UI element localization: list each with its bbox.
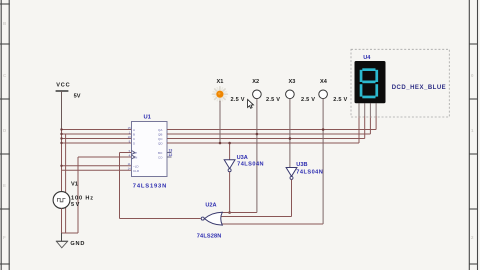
wire gate input2 horizontal — [222, 216, 292, 218]
inverter U3A 74LS04N — [224, 142, 263, 172]
wire U2A output riser — [119, 153, 121, 219]
junction X3-QC — [289, 137, 292, 140]
svg-text:B: B — [133, 133, 135, 137]
svg-text:CLR: CLR — [133, 169, 140, 173]
inverter U3B 74LS04N — [286, 162, 323, 179]
probe X3 — [286, 79, 316, 103]
counter U1 74LS193N — [132, 114, 168, 189]
U1 pin texts — [133, 128, 163, 173]
svg-text:74LS193N: 74LS193N — [133, 184, 167, 190]
wire gate input1 horizontal — [221, 212, 257, 214]
svg-text:2.5 V: 2.5 V — [301, 97, 315, 103]
svg-text:X1: X1 — [217, 79, 224, 85]
probe X1 (lit) — [213, 79, 245, 103]
probe X2 — [252, 79, 280, 103]
svg-text:U2A: U2A — [205, 202, 216, 208]
svg-text:74LS28N: 74LS28N — [197, 233, 222, 239]
wire rail C vertical (DOWN pin to gnd) — [77, 157, 79, 233]
wire DOWN horizontal — [78, 156, 132, 158]
wire data C — [62, 138, 132, 140]
sheet border left — [0, 0, 10, 270]
ground — [56, 233, 84, 248]
svg-text:74LS04N: 74LS04N — [296, 170, 323, 176]
wire CLR — [62, 169, 132, 171]
sheet zone numbers right — [471, 73, 474, 240]
svg-text:F: F — [3, 235, 6, 240]
sheet border right — [469, 0, 478, 270]
svg-text:2.5 V: 2.5 V — [266, 97, 280, 103]
svg-text:5 V: 5 V — [71, 202, 80, 208]
wire data B — [62, 133, 132, 135]
svg-text:E: E — [3, 183, 6, 188]
wire data A — [62, 129, 132, 131]
wire gate output — [120, 218, 201, 220]
wire bus QB — [167, 103, 370, 134]
7-segment display U4 DCD_HEX_BLUE — [351, 49, 449, 117]
svg-text:100 Hz: 100 Hz — [71, 195, 93, 201]
wire data D — [62, 142, 132, 144]
svg-text:11: 11 — [128, 162, 131, 166]
svg-text:U3A: U3A — [237, 155, 248, 161]
wire X3 stem to U3B input — [289, 99, 291, 168]
junction dots left rail — [60, 128, 62, 167]
svg-text:CO: CO — [158, 156, 163, 160]
svg-text:B: B — [3, 21, 6, 26]
sheet zone letters left — [3, 21, 7, 240]
wire ground bus — [62, 232, 79, 234]
svg-text:2.5 V: 2.5 V — [333, 97, 347, 103]
wire VCC rail down to V1 — [61, 91, 63, 130]
clock source V1 — [53, 181, 93, 208]
U1 pin numbers 13 12 — [169, 149, 173, 158]
junction U3A out / gate input1 — [228, 211, 231, 214]
wire UP horizontal from U2A riser — [120, 152, 132, 154]
svg-text:U3B: U3B — [296, 162, 307, 168]
wire U3A output drop — [229, 172, 231, 213]
junction X2-QB — [256, 133, 259, 136]
wire ~LOAD — [62, 165, 132, 167]
svg-text:QB: QB — [158, 133, 162, 137]
wire U3B output drop — [291, 180, 293, 217]
svg-text:V1: V1 — [71, 181, 78, 187]
svg-text:5V: 5V — [74, 94, 81, 100]
svg-text:BO: BO — [158, 151, 163, 155]
svg-text:74LS04N: 74LS04N — [237, 162, 264, 168]
svg-text:VCC: VCC — [56, 83, 69, 89]
svg-text:GND: GND — [70, 241, 84, 247]
svg-text:D: D — [3, 128, 6, 133]
svg-text:X4: X4 — [320, 79, 328, 85]
svg-text:U1: U1 — [144, 114, 152, 120]
svg-text:2.5 V: 2.5 V — [231, 97, 245, 103]
wire bus QD — [167, 103, 359, 143]
U1 clock pin marks — [132, 151, 136, 160]
wire V1 bottom — [61, 208, 63, 233]
U1 pin numbers left — [128, 126, 132, 171]
mouse cursor — [248, 99, 254, 108]
wire X2 stem to gate input1 — [256, 99, 258, 213]
wire gate input3 horizontal — [222, 223, 324, 225]
probe X4 — [319, 79, 348, 103]
svg-text:14: 14 — [128, 167, 132, 171]
wire rail B vertical — [65, 134, 67, 233]
junction X4-QA — [322, 128, 325, 131]
wire X1 stem — [219, 101, 221, 143]
svg-text:DCD_HEX_BLUE: DCD_HEX_BLUE — [392, 85, 446, 91]
wire bus QA — [167, 103, 376, 129]
svg-text:A: A — [133, 128, 135, 132]
svg-text:QA: QA — [158, 128, 162, 132]
svg-text:U4: U4 — [363, 55, 371, 61]
VCC power symbol — [56, 83, 81, 100]
NOR gate U2A 74LS28N (mirrored, output left) — [197, 202, 223, 239]
U1 pin stubs right — [167, 153, 172, 158]
svg-text:10: 10 — [128, 135, 132, 139]
svg-text:X2: X2 — [252, 79, 259, 85]
svg-text:15: 15 — [128, 126, 132, 130]
svg-text:12: 12 — [169, 153, 173, 157]
svg-text:~LD: ~LD — [133, 164, 139, 168]
junction X1-QD — [219, 142, 222, 145]
svg-text:X3: X3 — [289, 79, 296, 85]
svg-text:13: 13 — [169, 149, 173, 153]
wire bus QC — [167, 103, 365, 138]
wire X4 stem to gate input3 — [322, 99, 324, 224]
